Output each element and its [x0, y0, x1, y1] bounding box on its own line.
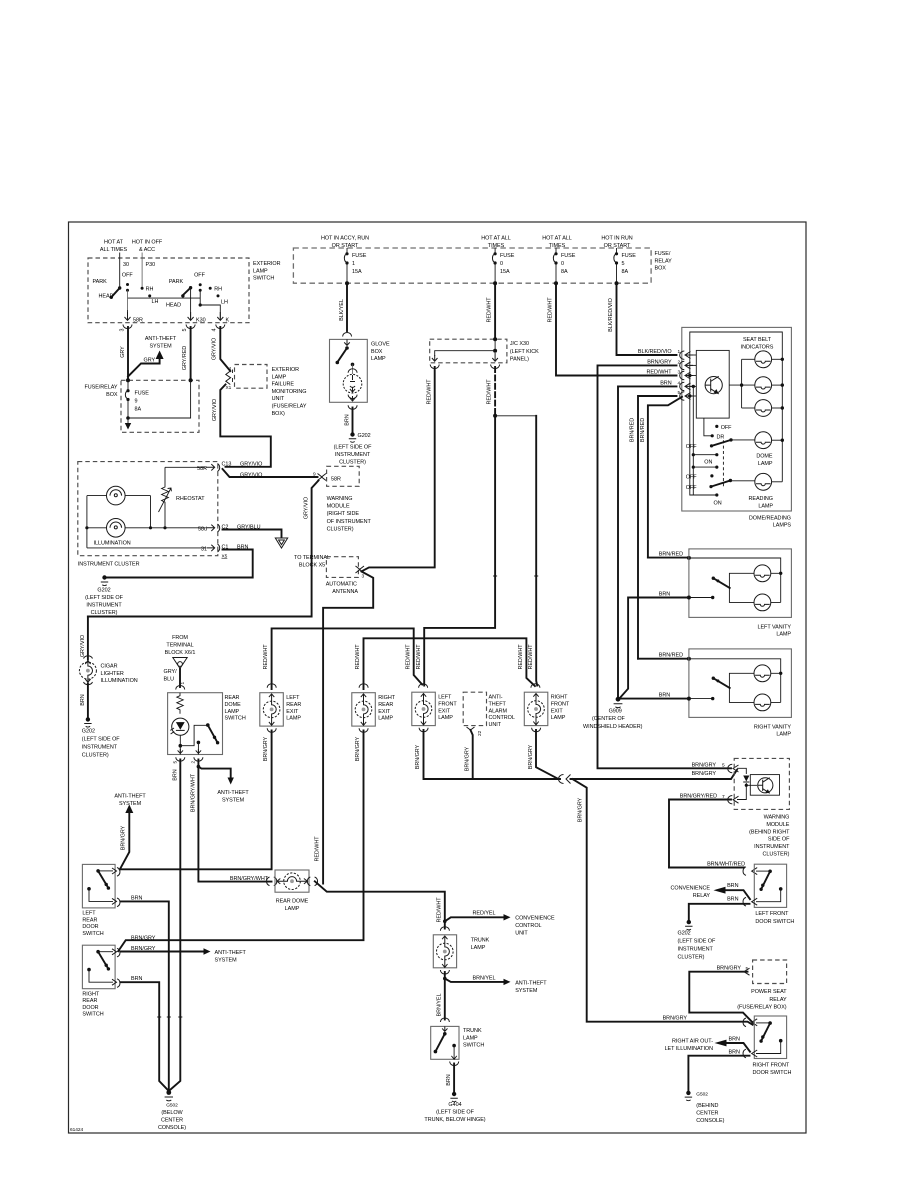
left rear door switch — [82, 864, 115, 908]
glove box lamp box — [330, 339, 368, 402]
svg-text:INSTRUMENT: INSTRUMENT — [335, 452, 371, 458]
svg-text:LH: LH — [152, 299, 159, 305]
svg-text:G502: G502 — [166, 1103, 178, 1109]
fuse/relay box (left) — [121, 380, 199, 432]
svg-text:(RIGHT SIDE: (RIGHT SIDE — [327, 511, 360, 517]
left vanity bulb 2 — [754, 594, 771, 611]
transistor symbol (seat belt module) — [705, 377, 722, 394]
svg-text:(FUSE/RELAY: (FUSE/RELAY — [272, 404, 307, 410]
svg-text:RIGHT: RIGHT — [378, 695, 395, 701]
glove box switch — [344, 339, 350, 345]
svg-text:OFF: OFF — [721, 425, 732, 431]
svg-text:TERMINAL: TERMINAL — [166, 643, 193, 649]
svg-text:GRY/VIO: GRY/VIO — [304, 497, 310, 519]
svg-text:GRY: GRY — [120, 346, 126, 358]
svg-text:REAR: REAR — [82, 917, 97, 923]
svg-text:BRN/YEL: BRN/YEL — [436, 993, 442, 1016]
switch 1 common down to 58R — [127, 290, 129, 310]
svg-text:LAMP: LAMP — [438, 715, 453, 721]
wire RED/WHT left rear to left front exit lamp — [272, 628, 423, 689]
svg-text:LAMP: LAMP — [285, 906, 300, 912]
wire BRN from C1 to ground G202 — [105, 550, 253, 578]
right front exit lamp — [531, 684, 540, 688]
svg-text:BRN/GRY: BRN/GRY — [121, 825, 127, 850]
svg-text:HOT AT ALL: HOT AT ALL — [481, 236, 511, 242]
svg-text:LEFT: LEFT — [438, 695, 452, 701]
svg-text:MODULE: MODULE — [766, 822, 789, 828]
wire GRY/BLU from C2 to terminal block X5 — [223, 530, 282, 538]
svg-text:GRY/RED: GRY/RED — [182, 346, 188, 371]
OFF contacts switch 1 — [126, 283, 129, 286]
right vanity bulb 2 — [754, 694, 771, 711]
trunk lamp switch — [431, 1026, 459, 1059]
svg-text:BRN: BRN — [659, 693, 670, 699]
svg-text:RIGHT: RIGHT — [82, 991, 99, 997]
svg-text:TIMES: TIMES — [488, 243, 505, 249]
wire BRN from cigar lighter to ground — [87, 684, 89, 719]
svg-text:CONTROL: CONTROL — [515, 923, 541, 929]
svg-text:INSTRUMENT: INSTRUMENT — [678, 946, 714, 952]
svg-text:BRN/RED: BRN/RED — [659, 653, 683, 659]
left front door switch box — [754, 864, 786, 907]
wire BRN/GRY left front exit lamp down to bus — [424, 730, 561, 779]
ground G202 (glove box) — [350, 432, 354, 436]
svg-text:K30: K30 — [196, 318, 206, 324]
terminal 58R connector — [125, 312, 131, 320]
terminal K connector — [217, 312, 223, 320]
wire BRN to ground G202 — [689, 904, 750, 921]
svg-text:FUSE: FUSE — [352, 253, 367, 259]
svg-text:LAMP: LAMP — [225, 709, 240, 715]
svg-text:CLUSTER): CLUSTER) — [339, 460, 366, 466]
svg-text:22: 22 — [477, 730, 483, 736]
svg-text:LAMP: LAMP — [776, 732, 791, 738]
svg-text:ON: ON — [714, 501, 722, 507]
svg-text:(LEFT SIDE OF: (LEFT SIDE OF — [334, 445, 372, 451]
svg-text:P30: P30 — [146, 262, 156, 268]
svg-text:BRN/GRY: BRN/GRY — [578, 797, 584, 822]
svg-text:GRY/: GRY/ — [164, 669, 178, 675]
left rear exit lamp — [267, 684, 276, 688]
trunk lamp — [433, 935, 456, 968]
svg-text:RED/WHT: RED/WHT — [355, 644, 361, 670]
svg-text:58d: 58d — [198, 526, 207, 532]
svg-text:DOOR SWITCH: DOOR SWITCH — [753, 1070, 792, 1076]
svg-text:BRN: BRN — [727, 897, 738, 903]
svg-text:5: 5 — [182, 328, 188, 331]
svg-text:BRN: BRN — [729, 1037, 740, 1043]
svg-text:FUSE: FUSE — [135, 391, 150, 397]
svg-text:LAMPS: LAMPS — [773, 523, 792, 529]
trunk lamp connector — [440, 927, 449, 931]
svg-text:RELAY: RELAY — [693, 893, 711, 899]
svg-text:BRN/GRY/RED: BRN/GRY/RED — [680, 794, 717, 800]
svg-text:UNIT: UNIT — [272, 396, 285, 402]
svg-text:BRN: BRN — [173, 769, 179, 780]
svg-text:ANTI-THEFT: ANTI-THEFT — [515, 980, 547, 986]
svg-text:RED/WHT: RED/WHT — [315, 836, 321, 862]
svg-text:1: 1 — [352, 261, 355, 267]
svg-text:BRN/GRY: BRN/GRY — [464, 746, 470, 771]
module inner supply rail — [690, 332, 783, 495]
svg-text:GRY/VIO: GRY/VIO — [240, 473, 262, 479]
svg-text:GRY/VIO: GRY/VIO — [212, 399, 218, 421]
wire BRN/WHT/RED into left front door switch — [669, 867, 744, 869]
svg-text:OFF: OFF — [686, 485, 697, 491]
wire GRY/VIO K down — [220, 327, 230, 371]
svg-text:4: 4 — [229, 366, 232, 372]
svg-text:TRUNK: TRUNK — [463, 1028, 482, 1034]
svg-text:& ACC: & ACC — [139, 247, 155, 253]
right vanity bulb 1 — [754, 665, 771, 682]
svg-text:X1: X1 — [226, 385, 232, 391]
svg-text:G202: G202 — [82, 729, 95, 735]
ground G502 below center console — [166, 1090, 171, 1095]
svg-text:BOX): BOX) — [272, 411, 285, 417]
svg-text:BRN: BRN — [131, 976, 142, 982]
switch ladder from row 4 — [692, 386, 694, 495]
svg-text:BOX: BOX — [106, 392, 118, 398]
svg-text:CENTER: CENTER — [696, 1111, 718, 1117]
terminal P30 feed wire — [141, 253, 143, 288]
svg-text:0: 0 — [561, 261, 564, 267]
svg-text:ANTI-THEFT: ANTI-THEFT — [215, 950, 247, 956]
svg-text:5: 5 — [622, 261, 625, 267]
svg-text:8A: 8A — [561, 269, 568, 275]
glove box lamp bottom connector — [348, 405, 357, 409]
svg-text:BRN/GRY: BRN/GRY — [663, 1016, 688, 1022]
svg-text:LAMP: LAMP — [758, 461, 773, 467]
svg-text:BRN: BRN — [446, 1074, 452, 1085]
module outer box — [682, 327, 792, 511]
svg-text:CONVENIENCE: CONVENIENCE — [671, 886, 711, 892]
svg-text:7: 7 — [722, 794, 725, 800]
svg-text:PANEL): PANEL) — [510, 356, 529, 362]
wire BRN 5 down — [169, 760, 181, 1092]
fuse/relay box (top, dashed) — [293, 248, 651, 283]
svg-text:(LEFT SIDE OF: (LEFT SIDE OF — [85, 595, 123, 601]
svg-text:SYSTEM: SYSTEM — [222, 798, 245, 804]
svg-text:K: K — [226, 318, 230, 324]
connector C1 arrow — [207, 544, 220, 552]
svg-text:EXIT: EXIT — [378, 709, 391, 715]
svg-text:DOOR: DOOR — [82, 1005, 98, 1011]
svg-text:BRN/GRY: BRN/GRY — [131, 936, 156, 942]
svg-text:CLUSTER): CLUSTER) — [327, 526, 354, 532]
connector row 3 RED/WHT — [556, 283, 677, 375]
svg-text:DR: DR — [717, 434, 725, 440]
cigar lighter illumination lamp — [84, 656, 93, 659]
svg-text:SWITCH: SWITCH — [82, 1012, 103, 1018]
svg-text:GRY/VIO: GRY/VIO — [80, 635, 86, 657]
wire GRY/BLU from X6/1 to rear dome lamp switch — [179, 669, 181, 688]
svg-text:HOT IN RUN: HOT IN RUN — [601, 236, 632, 242]
transistor output to indicator bulbs — [729, 384, 754, 386]
svg-text:TRUNK: TRUNK — [471, 938, 490, 944]
svg-text:5: 5 — [173, 761, 179, 764]
svg-text:HEAD: HEAD — [99, 294, 114, 300]
transistor block output to DR contact — [704, 418, 711, 436]
svg-text:HOT AT: HOT AT — [104, 240, 124, 246]
right vanity switch — [729, 673, 754, 702]
connector row 5 BRN/RED pair — [638, 396, 677, 659]
cross line between switches — [128, 297, 201, 299]
svg-text:(FUSE/RELAY BOX): (FUSE/RELAY BOX) — [737, 1004, 787, 1010]
svg-text:RED/WHT: RED/WHT — [518, 644, 524, 670]
svg-text:BRN: BRN — [80, 694, 86, 705]
svg-text:5: 5 — [722, 763, 725, 769]
svg-text:RELAY: RELAY — [769, 997, 787, 1003]
anti-theft branch from BRN/GRY/WHT — [197, 765, 201, 769]
glove box lamp connector — [343, 333, 352, 337]
fuse 5 8A — [616, 248, 618, 253]
svg-text:DOOR: DOOR — [82, 924, 98, 930]
svg-text:BRN: BRN — [659, 592, 670, 598]
svg-text:THEFT: THEFT — [489, 702, 507, 708]
svg-text:EXTERIOR: EXTERIOR — [272, 367, 300, 373]
svg-text:G202: G202 — [678, 930, 691, 936]
svg-text:CONTROL: CONTROL — [489, 715, 515, 721]
right vanity lamp box — [689, 649, 792, 718]
ground G202 (left side of instrument cluster) — [102, 575, 106, 579]
fuse 0 8A — [555, 248, 557, 253]
svg-text:G202: G202 — [358, 433, 371, 439]
wire RED/WHT left branch down to antenna feed — [362, 367, 435, 571]
svg-text:BRN/GRY: BRN/GRY — [717, 966, 742, 972]
monitoring unit dashed box — [235, 365, 268, 389]
svg-text:INSTRUMENT: INSTRUMENT — [82, 745, 118, 751]
svg-text:CIGAR: CIGAR — [101, 664, 118, 670]
svg-text:8A: 8A — [622, 269, 629, 275]
terminal block X5 triangle — [275, 538, 287, 548]
31 line to C1 — [87, 547, 206, 549]
right rear exit lamp — [359, 684, 368, 688]
svg-text:3: 3 — [362, 574, 365, 580]
svg-text:OR START: OR START — [604, 243, 631, 249]
svg-text:X5: X5 — [222, 554, 228, 560]
svg-text:REAR: REAR — [286, 702, 301, 708]
svg-text:FUSE/RELAY: FUSE/RELAY — [84, 385, 117, 391]
svg-text:OFF: OFF — [686, 474, 697, 480]
bus wire to warning module and door switch branch — [571, 770, 738, 779]
ground G404 — [452, 1092, 456, 1096]
fuse 1 15A — [346, 248, 348, 253]
OFF contacts switch 2 — [199, 283, 202, 286]
svg-text:PARK: PARK — [169, 279, 184, 285]
svg-text:LEFT: LEFT — [82, 911, 96, 917]
wire BRN/GRY/RED 7 into warning module — [669, 800, 731, 868]
wire BRN to ground — [352, 408, 354, 433]
svg-text:RIGHT VANITY: RIGHT VANITY — [754, 724, 791, 730]
wire RED/WHT right rear to right front exit lamp — [364, 638, 535, 689]
svg-text:TO TERMINAL: TO TERMINAL — [294, 555, 330, 561]
svg-text:ANTI-THEFT: ANTI-THEFT — [114, 794, 146, 800]
svg-text:G404: G404 — [448, 1102, 461, 1108]
svg-text:ILLUMINATION: ILLUMINATION — [101, 678, 138, 684]
connector C13 arrow — [207, 464, 220, 472]
svg-text:BRN: BRN — [727, 883, 738, 889]
svg-text:(LEFT KICK: (LEFT KICK — [510, 349, 539, 355]
svg-text:BLOCK X6/1: BLOCK X6/1 — [165, 650, 196, 656]
svg-text:DOOR SWITCH: DOOR SWITCH — [755, 919, 794, 925]
automatic antenna box — [326, 557, 358, 578]
svg-text:0: 0 — [500, 261, 503, 267]
instrument cluster dashed box — [78, 462, 218, 556]
svg-text:EXIT: EXIT — [286, 709, 299, 715]
svg-text:61424: 61424 — [70, 1127, 84, 1133]
connector row 4 BRN — [618, 386, 677, 699]
svg-text:LAMP: LAMP — [378, 716, 393, 722]
svg-text:DOME/READING: DOME/READING — [749, 515, 791, 521]
connector 4 / X1 — [226, 371, 231, 385]
svg-text:HOT IN ACCY, RUN: HOT IN ACCY, RUN — [321, 236, 369, 242]
svg-text:REAR: REAR — [378, 702, 393, 708]
svg-text:WINDSHIELD HEADER): WINDSHIELD HEADER) — [583, 724, 643, 730]
wire BRN/GRY right front exit lamp down to bus — [536, 730, 558, 779]
svg-text:RIGHT FRONT: RIGHT FRONT — [753, 1062, 790, 1068]
svg-text:OFF: OFF — [686, 444, 697, 450]
svg-text:SWITCH: SWITCH — [463, 1043, 484, 1049]
svg-text:BRN/RED: BRN/RED — [630, 418, 636, 442]
LH contact switch 2 — [217, 294, 220, 297]
wire BRN/GRY left rear exit lamp down — [120, 731, 272, 870]
svg-text:FUSE: FUSE — [561, 253, 576, 259]
dome lamp bulb — [755, 432, 772, 449]
svg-text:GRY/VIO: GRY/VIO — [212, 338, 218, 360]
58R line to C13 — [165, 466, 206, 468]
svg-text:BRN: BRN — [729, 1050, 740, 1056]
svg-text:DOME: DOME — [756, 454, 773, 460]
svg-text:HEAD: HEAD — [166, 303, 181, 309]
svg-text:LAMP: LAMP — [253, 268, 268, 274]
svg-text:RED/WHT: RED/WHT — [487, 379, 493, 405]
svg-text:SYSTEM: SYSTEM — [215, 958, 238, 964]
svg-text:SYSTEM: SYSTEM — [149, 343, 172, 349]
switch arm 2 (PARK/OFF/HEAD right) — [189, 286, 192, 289]
svg-text:ALARM: ALARM — [489, 708, 508, 714]
svg-text:LAMP: LAMP — [776, 632, 791, 638]
svg-text:G202: G202 — [97, 588, 110, 594]
svg-text:SWITCH: SWITCH — [225, 716, 246, 722]
svg-text:LET ILLUMINATION: LET ILLUMINATION — [665, 1046, 714, 1052]
svg-text:AUTOMATIC: AUTOMATIC — [326, 582, 357, 588]
svg-text:RED/WHT: RED/WHT — [426, 379, 432, 405]
svg-text:(LEFT SIDE OF: (LEFT SIDE OF — [678, 938, 716, 944]
svg-text:BRN/YEL: BRN/YEL — [473, 975, 496, 981]
warning module 2 internals — [737, 768, 757, 799]
junction GRY/RED at box top — [189, 378, 193, 382]
svg-text:TRUNK, BELOW HINGE): TRUNK, BELOW HINGE) — [424, 1117, 485, 1123]
svg-text:LEFT VANITY: LEFT VANITY — [757, 624, 791, 630]
svg-text:WARNING: WARNING — [764, 815, 790, 821]
svg-text:UNIT: UNIT — [515, 931, 528, 937]
svg-text:9: 9 — [135, 399, 138, 405]
svg-text:RH: RH — [146, 287, 154, 293]
seat belt indicator bulb 1 — [742, 358, 755, 360]
transistor in warning module — [758, 778, 773, 793]
wire BRN/GRY from alarm unit to bus — [471, 730, 473, 779]
svg-text:SEAT BELT: SEAT BELT — [743, 337, 772, 343]
svg-text:RED/YEL: RED/YEL — [473, 911, 496, 917]
svg-text:ON: ON — [704, 460, 712, 466]
svg-text:UNIT: UNIT — [489, 722, 502, 728]
svg-text:EXIT: EXIT — [551, 708, 564, 714]
seat belt indicator bulb 3 — [742, 407, 755, 409]
glove box bulb — [351, 363, 355, 367]
inline connector on bus — [559, 775, 571, 784]
svg-text:58R: 58R — [197, 466, 207, 472]
svg-text:BOX: BOX — [371, 349, 383, 355]
svg-text:4: 4 — [212, 328, 218, 331]
svg-text:FUSE/: FUSE/ — [655, 251, 671, 257]
alarm unit terminal 22 — [467, 727, 475, 730]
svg-text:RH: RH — [214, 287, 222, 293]
svg-text:ANTENNA: ANTENNA — [332, 589, 358, 595]
ground G202 (cigar lighter) — [86, 717, 90, 721]
illumination lamp 2 — [107, 519, 126, 538]
svg-text:INSTRUMENT: INSTRUMENT — [754, 844, 790, 850]
svg-text:BLOCK X5: BLOCK X5 — [299, 563, 325, 569]
svg-text:INSTRUMENT: INSTRUMENT — [86, 603, 122, 609]
wire GRY/VIO from C13 to warning module 58R — [223, 469, 318, 477]
svg-text:DOME: DOME — [225, 702, 242, 708]
anti-theft arrow from right rear door switch — [121, 951, 204, 953]
svg-text:BRN/GRY/WHT: BRN/GRY/WHT — [230, 876, 269, 882]
svg-text:MODULE: MODULE — [327, 504, 350, 510]
svg-text:RHEOSTAT: RHEOSTAT — [176, 496, 205, 502]
svg-text:LIGHTER: LIGHTER — [101, 671, 124, 677]
svg-text:BRN/GRY: BRN/GRY — [355, 736, 361, 761]
svg-text:2: 2 — [191, 761, 197, 764]
left vanity bulb 1 — [754, 565, 771, 582]
left vanity lamp box — [689, 549, 792, 618]
svg-text:OFF: OFF — [194, 273, 205, 279]
right front door switch box — [754, 1016, 786, 1059]
wire below fuse 9 — [127, 400, 129, 419]
svg-text:BLK/RED/VIO: BLK/RED/VIO — [638, 349, 672, 355]
svg-text:LAMP: LAMP — [371, 356, 386, 362]
wire RED/WHT dashed from J/C X30 down — [494, 367, 496, 416]
svg-text:LAMP: LAMP — [286, 716, 301, 722]
lamp parallel wiring — [87, 496, 165, 548]
svg-text:EXIT: EXIT — [438, 708, 451, 714]
left front exit lamp — [419, 684, 428, 688]
switch contacts in rear dome lamp switch — [180, 725, 208, 745]
connector row 2 BRN/GRY — [598, 365, 732, 768]
svg-text:CONVENIENCE: CONVENIENCE — [515, 916, 555, 922]
svg-text:BRN/GRY/WHT: BRN/GRY/WHT — [191, 773, 197, 812]
warning module (right side of cluster) box — [327, 466, 360, 486]
seat belt indicator bulb 2 — [755, 377, 772, 394]
resistor in rear dome lamp switch — [177, 693, 183, 714]
wire from antenna junction down to rear dome lamp feed — [323, 572, 373, 884]
svg-text:LEFT: LEFT — [286, 695, 300, 701]
LH contact switch 1 — [148, 294, 151, 297]
svg-text:RED/WHT: RED/WHT — [406, 644, 412, 670]
svg-text:(BEHIND RIGHT: (BEHIND RIGHT — [749, 829, 790, 835]
svg-text:BLK/RED/VIO: BLK/RED/VIO — [608, 298, 614, 332]
svg-text:BRN/GRY: BRN/GRY — [263, 736, 269, 761]
svg-text:INDICATORS: INDICATORS — [741, 345, 774, 351]
svg-text:FUSE: FUSE — [622, 253, 637, 259]
svg-text:GRY/VIO: GRY/VIO — [240, 462, 262, 468]
wire BRN right rear door switch down — [121, 982, 169, 1091]
svg-text:PARK: PARK — [92, 279, 107, 285]
svg-text:CLUSTER): CLUSTER) — [82, 753, 109, 759]
connector row 1 BLK/RED/VIO — [617, 283, 677, 355]
warning module (right side of cluster) connector 9 — [318, 474, 327, 481]
svg-text:OF INSTRUMENT: OF INSTRUMENT — [327, 519, 372, 525]
